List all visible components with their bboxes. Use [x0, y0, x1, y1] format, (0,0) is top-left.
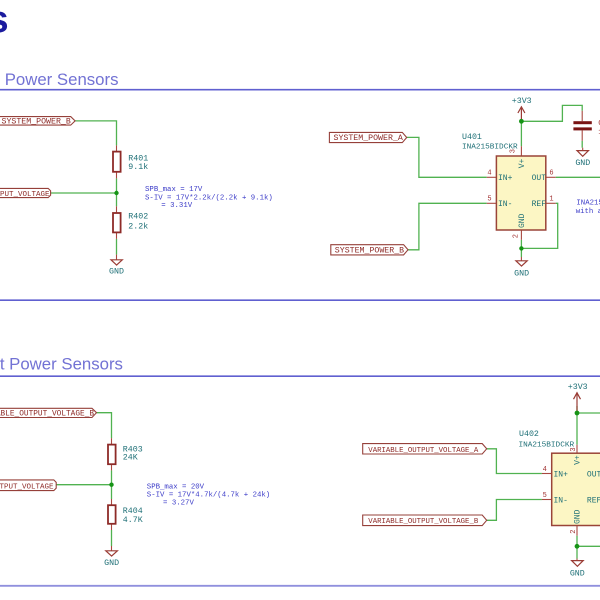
svg-text:R404: R404 — [123, 507, 143, 516]
svg-text:S-IV = 17V*4.7k/(4.7k + 24k): S-IV = 17V*4.7k/(4.7k + 24k) — [147, 492, 270, 500]
svg-text:U401: U401 — [462, 133, 482, 142]
svg-text:VARIABLE_OUTPUT_VOLTAGE_A: VARIABLE_OUTPUT_VOLTAGE_A — [368, 447, 479, 455]
svg-text:4: 4 — [487, 169, 491, 177]
svg-text:SYSTEM_POWER_A: SYSTEM_POWER_A — [334, 134, 403, 143]
svg-text:VARIABLE_OUTPUT_VOLTAGE_B: VARIABLE_OUTPUT_VOLTAGE_B — [0, 411, 94, 419]
svg-text:OUT: OUT — [587, 470, 600, 479]
svg-text:3: 3 — [570, 447, 578, 451]
svg-text:GND: GND — [575, 159, 590, 168]
svg-text:5: 5 — [487, 196, 491, 204]
svg-text:GND: GND — [104, 559, 119, 568]
svg-text:U402: U402 — [519, 430, 539, 439]
svg-text:GND: GND — [574, 509, 583, 524]
svg-text:SPB_max = 17V: SPB_max = 17V — [145, 186, 203, 194]
svg-text:VARIABLE_OUTPUT_VOLTAGE_B: VARIABLE_OUTPUT_VOLTAGE_B — [368, 518, 479, 526]
svg-text:IN-: IN- — [498, 200, 512, 209]
svg-text:Input Power Sensors: Input Power Sensors — [0, 70, 118, 89]
svg-text:4.7K: 4.7K — [123, 516, 143, 525]
svg-text:PUT_VOLTAGE: PUT_VOLTAGE — [0, 191, 50, 199]
svg-text:GND: GND — [514, 269, 529, 278]
svg-text:= 3.31V: = 3.31V — [161, 202, 192, 210]
svg-text:9.1k: 9.1k — [128, 162, 148, 172]
svg-text:s: s — [0, 0, 9, 41]
svg-text:V+: V+ — [574, 455, 583, 465]
svg-text:= 3.27V: = 3.27V — [163, 500, 194, 508]
svg-text:5: 5 — [543, 492, 547, 500]
svg-text:IN+: IN+ — [498, 174, 513, 183]
svg-text:3: 3 — [509, 149, 517, 153]
svg-text:TPUT_VOLTAGE: TPUT_VOLTAGE — [0, 484, 54, 492]
svg-text:2: 2 — [570, 529, 578, 533]
svg-text:6: 6 — [549, 169, 553, 177]
svg-text:IN-: IN- — [554, 496, 568, 505]
svg-text:4: 4 — [543, 466, 547, 474]
svg-text:SYSTEM_POWER_B: SYSTEM_POWER_B — [335, 247, 404, 256]
svg-text:+3V3: +3V3 — [512, 97, 532, 106]
svg-text:1: 1 — [549, 196, 553, 204]
svg-text:SYSTEM_POWER_B: SYSTEM_POWER_B — [2, 117, 71, 126]
svg-text:REF: REF — [532, 200, 547, 209]
svg-text:with a: with a — [576, 208, 600, 216]
svg-text:GND: GND — [518, 213, 527, 228]
svg-text:+3V3: +3V3 — [568, 383, 588, 392]
svg-text:R402: R402 — [128, 212, 148, 221]
svg-text:V+: V+ — [518, 158, 527, 168]
svg-text:SPB_max = 20V: SPB_max = 20V — [147, 483, 205, 491]
svg-text:GND: GND — [109, 268, 124, 277]
svg-text:24K: 24K — [123, 454, 138, 463]
svg-text:REF: REF — [587, 496, 600, 505]
svg-text:INA215BIDCKR: INA215BIDCKR — [519, 442, 575, 450]
svg-text:Output Power Sensors: Output Power Sensors — [0, 355, 123, 374]
svg-text:GND: GND — [570, 570, 585, 579]
svg-text:2.2k: 2.2k — [128, 222, 148, 232]
svg-text:INA215B: INA215B — [576, 199, 600, 207]
svg-text:2: 2 — [513, 234, 521, 238]
svg-text:OUT: OUT — [532, 174, 547, 183]
svg-text:IN+: IN+ — [554, 470, 569, 479]
